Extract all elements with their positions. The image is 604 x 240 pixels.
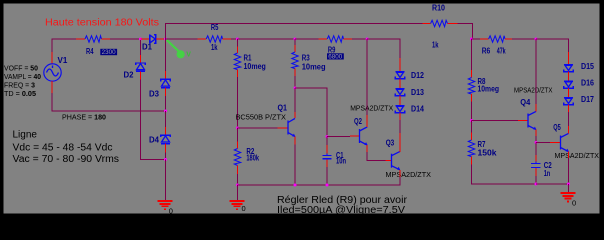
svg-text:R3: R3 (302, 53, 310, 62)
wire HV rail right of node (166, 38, 198, 40)
resistor R6 (489, 36, 505, 42)
svg-text:150k: 150k (478, 148, 498, 157)
svg-text:MPSA2D/ZTX: MPSA2D/ZTX (555, 151, 600, 160)
node dot Q4 base tap (470, 119, 473, 122)
wire D3 to mid node (165, 96, 167, 111)
svg-text:D14: D14 (411, 104, 424, 113)
wire C2 to rail (535, 176, 537, 184)
svg-text:V1: V1 (58, 56, 68, 65)
capacitor C2 (531, 161, 540, 169)
wire Q5 base (536, 142, 550, 144)
svg-text:Q1: Q1 (278, 104, 288, 113)
wire R3 to node (294, 76, 296, 88)
wire node to D12 chain corner (367, 39, 400, 58)
diode D13 (395, 89, 404, 96)
wire Q5 emitter to rail node (568, 158, 570, 184)
svg-text:D2: D2 (124, 70, 135, 79)
pin V1 top (51, 52, 53, 64)
resistor R8 (468, 78, 474, 95)
svg-text:Haute tension 180 Volts: Haute tension 180 Volts (45, 17, 159, 28)
wire Q3 emitter to rail (399, 177, 401, 186)
svg-text:6800: 6800 (328, 54, 343, 60)
ground G1 (157, 201, 172, 209)
svg-text:Q3: Q3 (386, 138, 395, 147)
wire rail to G3 column (536, 183, 569, 185)
wire R6 to Q4 node (512, 38, 536, 40)
resistor R3 (292, 52, 298, 69)
svg-text:Iled=500µA @Vligne=7.5V: Iled=500µA @Vligne=7.5V (277, 205, 405, 216)
pin R3 bottom (294, 69, 296, 76)
svg-text:10meg: 10meg (478, 85, 500, 94)
wire Q4 emitter to node (535, 136, 537, 143)
resistor R2 (234, 149, 240, 166)
wire Q4 collector up (535, 39, 537, 104)
transistor Q4 (528, 111, 536, 129)
resistor R10 (431, 20, 448, 26)
pin R6 left (480, 38, 489, 40)
V1 attribute text block (4, 64, 41, 98)
pin C1 top (326, 137, 328, 145)
pin V1 bottom (51, 81, 53, 93)
wire Q2 collector up (366, 39, 368, 115)
pin R1 top (237, 47, 239, 54)
wire R3 node to R9 (295, 38, 318, 40)
pin R1 bottom (237, 70, 239, 77)
pin R4 right (102, 38, 111, 40)
pin D12 chain top (399, 58, 401, 72)
pin D1 left (141, 38, 150, 40)
svg-text:0: 0 (169, 206, 173, 215)
pin D2 top (140, 55, 142, 63)
node dot D2 return (164, 158, 167, 161)
pin R4 left (76, 38, 85, 40)
svg-text:R9: R9 (328, 46, 336, 55)
svg-text:D12: D12 (411, 71, 424, 80)
wire: V1 top column (52, 39, 76, 52)
diode D3 (161, 79, 170, 87)
pin R8 bottom (471, 94, 473, 101)
wire R9 to Q2 collector node (352, 38, 367, 40)
node dot C1 top (326, 135, 329, 138)
svg-text:R10: R10 (432, 3, 445, 12)
svg-text:MPSA2D/ZTX: MPSA2D/ZTX (350, 104, 393, 113)
pin R5 left (198, 38, 207, 40)
svg-text:Vac = 70 - 80 -90 Vrms: Vac = 70 - 80 -90 Vrms (13, 154, 120, 165)
pin Q1 base (277, 127, 287, 129)
svg-text:Q2: Q2 (354, 117, 362, 126)
pin D4 top (165, 127, 167, 135)
diode D14 (395, 106, 404, 113)
pin Q1 collector (294, 112, 296, 118)
pin Q5 emitter (568, 152, 570, 158)
diode D1 (150, 35, 156, 43)
pin Q3 base (386, 160, 392, 162)
pin D15-D16 (568, 72, 570, 81)
svg-text:2300: 2300 (102, 50, 117, 56)
svg-text:MPSA2D/ZTX: MPSA2D/ZTX (514, 85, 553, 94)
svg-text:D4: D4 (149, 135, 160, 144)
pin R10 right (448, 23, 458, 25)
pin Q3 emitter (399, 170, 401, 177)
pin R6 right (505, 38, 512, 40)
wire Q4 base (472, 120, 519, 122)
resistor R4 (85, 36, 102, 42)
node dot Q1 emitter rail (294, 184, 297, 187)
wire R1 top (237, 39, 239, 47)
node dot Q4 collector tap (535, 38, 538, 41)
pin D1 right (156, 38, 166, 40)
pin C1 bottom (326, 159, 328, 167)
probe marker V (167, 40, 192, 59)
svg-text:0: 0 (242, 204, 246, 213)
svg-text:Ligne: Ligne (13, 129, 38, 140)
Ligne text block (13, 129, 120, 165)
wire R6 left (472, 38, 481, 40)
pin Q4 collector (535, 104, 537, 112)
svg-text:1k: 1k (211, 43, 218, 52)
node dot HV node (164, 38, 167, 41)
svg-text:D13: D13 (411, 88, 424, 97)
wire D2 branch down and right to ground column (141, 80, 166, 160)
pin R10 left (423, 23, 431, 25)
wire R5 to R1 node (231, 38, 238, 40)
pin C2 bottom (535, 168, 537, 176)
capacitor C1 (322, 153, 331, 161)
pin Q2 base (350, 135, 360, 137)
pin Q2 collector (366, 115, 368, 127)
wire Q1 emitter down (294, 145, 296, 186)
svg-text:10meg: 10meg (244, 62, 266, 71)
pin Q2 emitter (366, 145, 368, 152)
svg-text:1k: 1k (432, 40, 439, 49)
node dot Q2 collector (366, 38, 369, 41)
svg-text:R6: R6 (482, 46, 491, 55)
node dot R1 top (236, 38, 239, 41)
wire node down to D4 (165, 111, 167, 127)
wire D17 to Q5 collector (568, 112, 570, 126)
svg-text:Q5: Q5 (553, 123, 561, 132)
wire Q2 base (327, 136, 350, 138)
wire node to Q1 collector (294, 88, 296, 112)
pin D2 bottom (140, 71, 142, 79)
node dot Q1 base tap (236, 127, 239, 130)
wire R1 to Q1 base node (237, 77, 239, 128)
wire to right column (536, 39, 569, 52)
svg-text:10meg: 10meg (302, 63, 326, 72)
pin D15 chain top (568, 52, 570, 65)
pin R7 bottom (471, 157, 473, 165)
diode D17 (564, 98, 573, 105)
pin R9 right (344, 38, 352, 40)
svg-text:0: 0 (572, 199, 576, 208)
wire R3 top (294, 39, 296, 45)
svg-text:D3: D3 (149, 89, 160, 98)
pin Q4 emitter (535, 130, 537, 136)
wire C1 to rail (326, 167, 328, 185)
ground G2 (229, 201, 244, 209)
wire bottom rail left section (238, 184, 400, 186)
svg-text:D15: D15 (581, 62, 594, 71)
wire node down to D3 (165, 39, 167, 71)
pin Q5 base (550, 142, 561, 144)
pin D4 bottom (165, 144, 167, 153)
node dot R3 top (294, 38, 297, 41)
wire Q1 base (238, 127, 278, 129)
wire R2 to bottom rail (237, 174, 239, 185)
svg-text:PHASE = 180: PHASE = 180 (62, 113, 106, 122)
pin R2 bottom (237, 166, 239, 175)
wire: node up to top rail and right (166, 24, 423, 40)
diode D4 (161, 135, 170, 143)
resistor R7 (468, 140, 474, 157)
pin C2 top (535, 155, 537, 163)
svg-text:47k: 47k (497, 46, 506, 55)
svg-text:MPSA2D/ZTX: MPSA2D/ZTX (386, 170, 432, 179)
wire node down to R2 (237, 128, 239, 142)
wire R4 to D1 node (110, 38, 141, 40)
transistor Q5 (561, 133, 569, 152)
svg-text:TD = 0.05: TD = 0.05 (4, 89, 36, 98)
wire Q2 emitter to Q3 base (367, 152, 385, 161)
node dot R3 bottom (294, 87, 297, 90)
svg-text:Vdc = 45 - 48 -54 Vdc: Vdc = 45 - 48 -54 Vdc (13, 143, 113, 154)
pin R2 top (237, 142, 239, 149)
diode D2 (136, 63, 145, 71)
pin R7 top (471, 133, 473, 141)
wire G2 stub (237, 185, 239, 200)
pin Q5 collector (568, 126, 570, 134)
wire R8 to Q4 base node (471, 102, 473, 121)
pin D3 bottom (165, 88, 167, 96)
resistor R9 (327, 36, 343, 42)
pin R8 top (471, 70, 473, 78)
svg-text:D16: D16 (581, 79, 594, 88)
wire top rail corner down to right rail (457, 24, 472, 40)
value box 2300 (100, 49, 117, 56)
ground G3 (560, 193, 575, 201)
diode D12 (395, 72, 404, 79)
svg-text:10n: 10n (336, 157, 346, 166)
svg-text:180k: 180k (246, 153, 259, 162)
wire R1 node to R3 node (238, 38, 296, 40)
pin D13-D14 (399, 96, 401, 106)
wire to ground G1 (165, 160, 167, 201)
diode branch D2 (140, 40, 142, 55)
pin R5 right (223, 38, 232, 40)
pin D14 bottom (399, 113, 401, 120)
wire L to C1 column (295, 88, 327, 137)
svg-text:R5: R5 (211, 23, 219, 32)
pin R9 left (318, 38, 327, 40)
value box 6800 (327, 53, 344, 60)
pin D12-D13 (399, 79, 401, 89)
pin D16-D17 (568, 88, 570, 97)
node dot C1 bottom (326, 184, 329, 187)
pin D17 bottom (568, 105, 570, 112)
svg-text:R4: R4 (86, 47, 94, 56)
diode D16 (564, 81, 573, 88)
node dot D2 tap (139, 38, 142, 41)
svg-text:V: V (186, 51, 191, 58)
transistor Q3 (392, 152, 401, 171)
svg-text:Q4: Q4 (520, 98, 531, 107)
wire R7 to bottom right rail (472, 165, 537, 185)
svg-text:BC550B P/ZTX: BC550B P/ZTX (236, 112, 287, 121)
wire C2 top (535, 143, 537, 158)
node dot G3 (567, 183, 570, 186)
node dot mid rail (164, 110, 167, 113)
pin D3 top (165, 71, 167, 79)
transistor Q1 (288, 118, 295, 136)
pin Q1 emitter (294, 137, 296, 145)
pin R3 top (294, 45, 296, 52)
node dot Q4 emitter (535, 141, 538, 144)
svg-text:1n: 1n (544, 169, 551, 178)
node dot bottom rail G2 (236, 184, 239, 187)
wire D4 to ground junction (165, 153, 167, 160)
svg-text:D17: D17 (581, 95, 594, 104)
diode D15 (564, 65, 573, 72)
source V1 (44, 64, 61, 81)
resistor R5 (206, 36, 222, 42)
wire node down to R7 (471, 121, 473, 133)
node dot R10 branch (470, 38, 473, 41)
wire to ground G3 (568, 184, 570, 193)
wire: V1 bottom loop to node (52, 93, 166, 111)
node dot C2 bottom (535, 183, 538, 186)
pin Q4 base (518, 120, 528, 122)
pin Q3 collector (399, 133, 401, 152)
transistor Q2 (360, 127, 368, 145)
svg-text:D1: D1 (142, 43, 153, 52)
wire D14 to Q3 collector (399, 120, 401, 133)
wire R8 column top (471, 39, 473, 70)
resistor R1 (234, 53, 240, 70)
